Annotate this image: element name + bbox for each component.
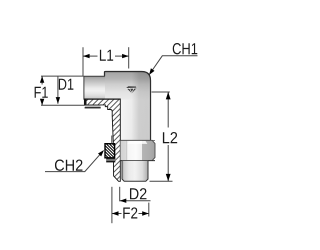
F1 top extension [41,75,84,77]
D2 left extension [119,187,121,202]
dimension D1 [57,76,59,104]
nut (hex, external) [120,140,155,160]
D2 dim line [120,200,151,202]
nut top chamfer highlight [127,141,147,144]
L1 dim line [83,55,98,57]
dimension L1 [83,47,129,76]
body right-side shading [105,71,151,140]
L1 left extension [82,47,84,76]
L2 top extension [152,91,170,93]
section hatch (elbow wall cut) [84,99,120,181]
body block and vertical arm (external view) [105,71,151,140]
D2 label [130,188,147,199]
F2 arrows [112,211,119,215]
D1 arrow [56,97,60,104]
dimension CH1 (leader) [150,56,198,74]
F1 arrows [40,76,44,83]
D2 arrow [120,199,127,203]
nut facet line [126,141,128,161]
body outline [105,72,151,141]
stud outline [122,161,148,181]
thread strip (female thread in section) [85,105,101,108]
dimension F1 [41,76,85,105]
nut back edge line [111,136,113,144]
D1 label [59,79,74,90]
vertical arm left highlight [120,100,133,141]
F1 dim line [41,76,43,84]
stud (male thread end) [122,161,148,181]
F2 label [123,207,137,218]
dimension D2 [120,187,151,202]
port cylinder (left, external view) [84,76,105,99]
L2 bottom extension [150,180,173,182]
CH2 locknut in section (hatched square) [105,144,115,158]
dimension CH2 (leader) [45,151,103,172]
F1 label [35,87,48,98]
L2 dim line [167,92,169,128]
diamond logo [126,86,136,93]
L2 arrows [166,92,171,99]
port split line [84,98,121,100]
L1 arrows [83,54,90,58]
L2 label [163,132,177,143]
dimension F2 [112,187,149,223]
F2 left extension [111,187,113,223]
F2 dim line [112,213,122,215]
CH1 label [173,43,198,54]
F2 right extension [148,203,150,217]
port outline [84,76,105,99]
dimension L2 [150,92,173,181]
L1 label [100,50,113,61]
CH2 label [55,160,83,171]
L1 right extension [128,47,130,68]
seal washer (dark) [106,158,115,163]
hatch left end dark blob [84,99,87,105]
nut outline [120,140,155,160]
F1 bottom extension [41,104,85,106]
